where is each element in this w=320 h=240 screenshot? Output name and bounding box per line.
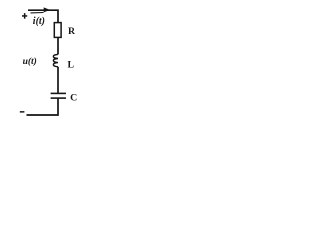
- wire top: [28, 10, 58, 22]
- resistor R: [54, 23, 61, 38]
- capacitor C bottom plate: [51, 97, 66, 99]
- svg-text:u(t): u(t): [23, 56, 37, 67]
- svg-text:i(t): i(t): [33, 16, 45, 27]
- svg-text:L: L: [68, 59, 75, 70]
- capacitor C top plate: [51, 93, 66, 95]
- current arrowhead: [44, 7, 50, 12]
- svg-text:C: C: [70, 93, 77, 104]
- svg-text:R: R: [68, 26, 76, 37]
- inductor L coil: [53, 54, 58, 66]
- negative terminal -: [20, 111, 25, 113]
- current arrow i(t) line: [31, 12, 44, 14]
- wire resistor to inductor: [57, 37, 59, 54]
- wire capacitor to bottom: [27, 98, 59, 115]
- positive terminal +: [22, 13, 27, 19]
- wire inductor to capacitor: [57, 67, 59, 93]
